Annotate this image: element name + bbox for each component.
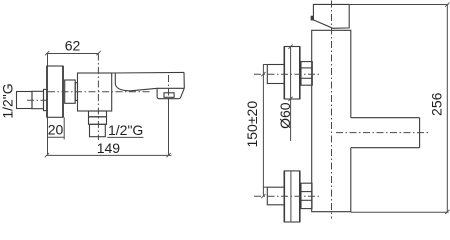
dimension 150±20 bottom stub: [263, 186, 268, 188]
dimension 20 dim line: [47, 136, 64, 138]
handle: [313, 4, 349, 28]
dimension 20 right extension line: [63, 117, 65, 139]
dimension 62 right tick: [96, 51, 100, 55]
spout bottom edge: [131, 88, 184, 91]
dimension 256 bottom extension: [351, 211, 449, 213]
upper inlet pipe: [267, 65, 284, 84]
upper nut facet line 1: [301, 67, 312, 69]
dimension 62 dim line: [47, 53, 99, 55]
svg-text:149: 149: [97, 140, 121, 156]
svg-text:1/2"G: 1/2"G: [108, 122, 143, 138]
diameter 60 top tick: [288, 45, 292, 49]
spout (front) top edge: [351, 117, 420, 119]
dimension 150±20 dim line: [262, 65, 264, 197]
shower outlet nut: [89, 117, 107, 125]
shower outlet lower fitting: [90, 124, 106, 136]
spout mouthpiece: [157, 88, 184, 98]
lower nut facet line 1: [301, 191, 312, 193]
lower inlet pipe: [267, 187, 284, 205]
body horizontal centerline: [48, 91, 150, 93]
lower nut facet line 2: [301, 199, 312, 201]
lower inlet centerline: [254, 195, 320, 197]
dimension 62 left extension line: [47, 53, 49, 66]
diameter 60 dim line upper: [290, 47, 292, 142]
dimension 150±20 top stub: [263, 64, 268, 66]
upper inlet flange: [284, 47, 300, 100]
dimension 256 dim line: [446, 5, 448, 213]
upper nut facet line 2: [301, 77, 312, 79]
diameter 60 dim line lower: [290, 171, 292, 222]
body vertical centerline: [331, 1, 333, 219]
body vertical centerline: [97, 54, 99, 141]
dimension 149 right tick: [166, 153, 170, 157]
svg-text:1/2"G: 1/2"G: [0, 83, 16, 118]
aerator rect: [164, 93, 174, 98]
spout centerline: [336, 132, 431, 134]
mixer body (side): [78, 73, 112, 111]
dimension 256 bottom tick: [445, 210, 449, 214]
svg-text:150±20: 150±20: [244, 101, 260, 148]
dimension 62 left tick: [45, 51, 49, 55]
diameter 60 bottom tick: [288, 97, 292, 101]
label 1/2"G underline leader: [107, 136, 143, 138]
dimension 150±20 bottom tick: [261, 194, 265, 198]
svg-text:20: 20: [48, 122, 64, 138]
dimension 256 top tick: [445, 2, 449, 6]
spout bottom edge: [351, 147, 420, 149]
upper inlet centerline: [254, 73, 320, 75]
inlet pipe centerline: [27, 99, 47, 101]
lower inlet flange: [284, 171, 300, 222]
spout root joint line: [114, 73, 116, 84]
spout right edge: [183, 72, 185, 88]
dimension 149 dim line: [47, 154, 172, 156]
spout under fillet curve: [115, 84, 131, 91]
spout outlet extension line down: [168, 99, 170, 155]
dimension 20 left extension line: [47, 117, 49, 139]
spout outlet centerline: [168, 75, 170, 99]
dimension 149 left tick: [45, 153, 49, 157]
shower outlet nipple: [89, 111, 107, 117]
connector ring: [75, 83, 77, 101]
handle notch: [311, 16, 313, 20]
svg-text:62: 62: [65, 37, 81, 53]
wall inlet pipe section 1: [17, 92, 33, 109]
lower inlet nut: [301, 183, 312, 208]
wall flange (escutcheon): [47, 66, 63, 117]
dimension 150±20 top tick: [261, 72, 265, 76]
wall inlet pipe nut: [44, 89, 48, 110]
dimension 256 top extension: [349, 4, 448, 6]
svg-text:Ø60: Ø60: [277, 102, 293, 129]
dimension 149 left extension: [47, 140, 49, 156]
wall inlet pipe section 2: [32, 91, 44, 108]
spout right edge: [419, 118, 421, 148]
mixer body (front): [312, 30, 351, 211]
svg-text:256: 256: [429, 92, 445, 116]
connector between flange and body: [65, 80, 76, 103]
spout top edge: [112, 71, 184, 74]
upper inlet nut: [301, 62, 312, 86]
